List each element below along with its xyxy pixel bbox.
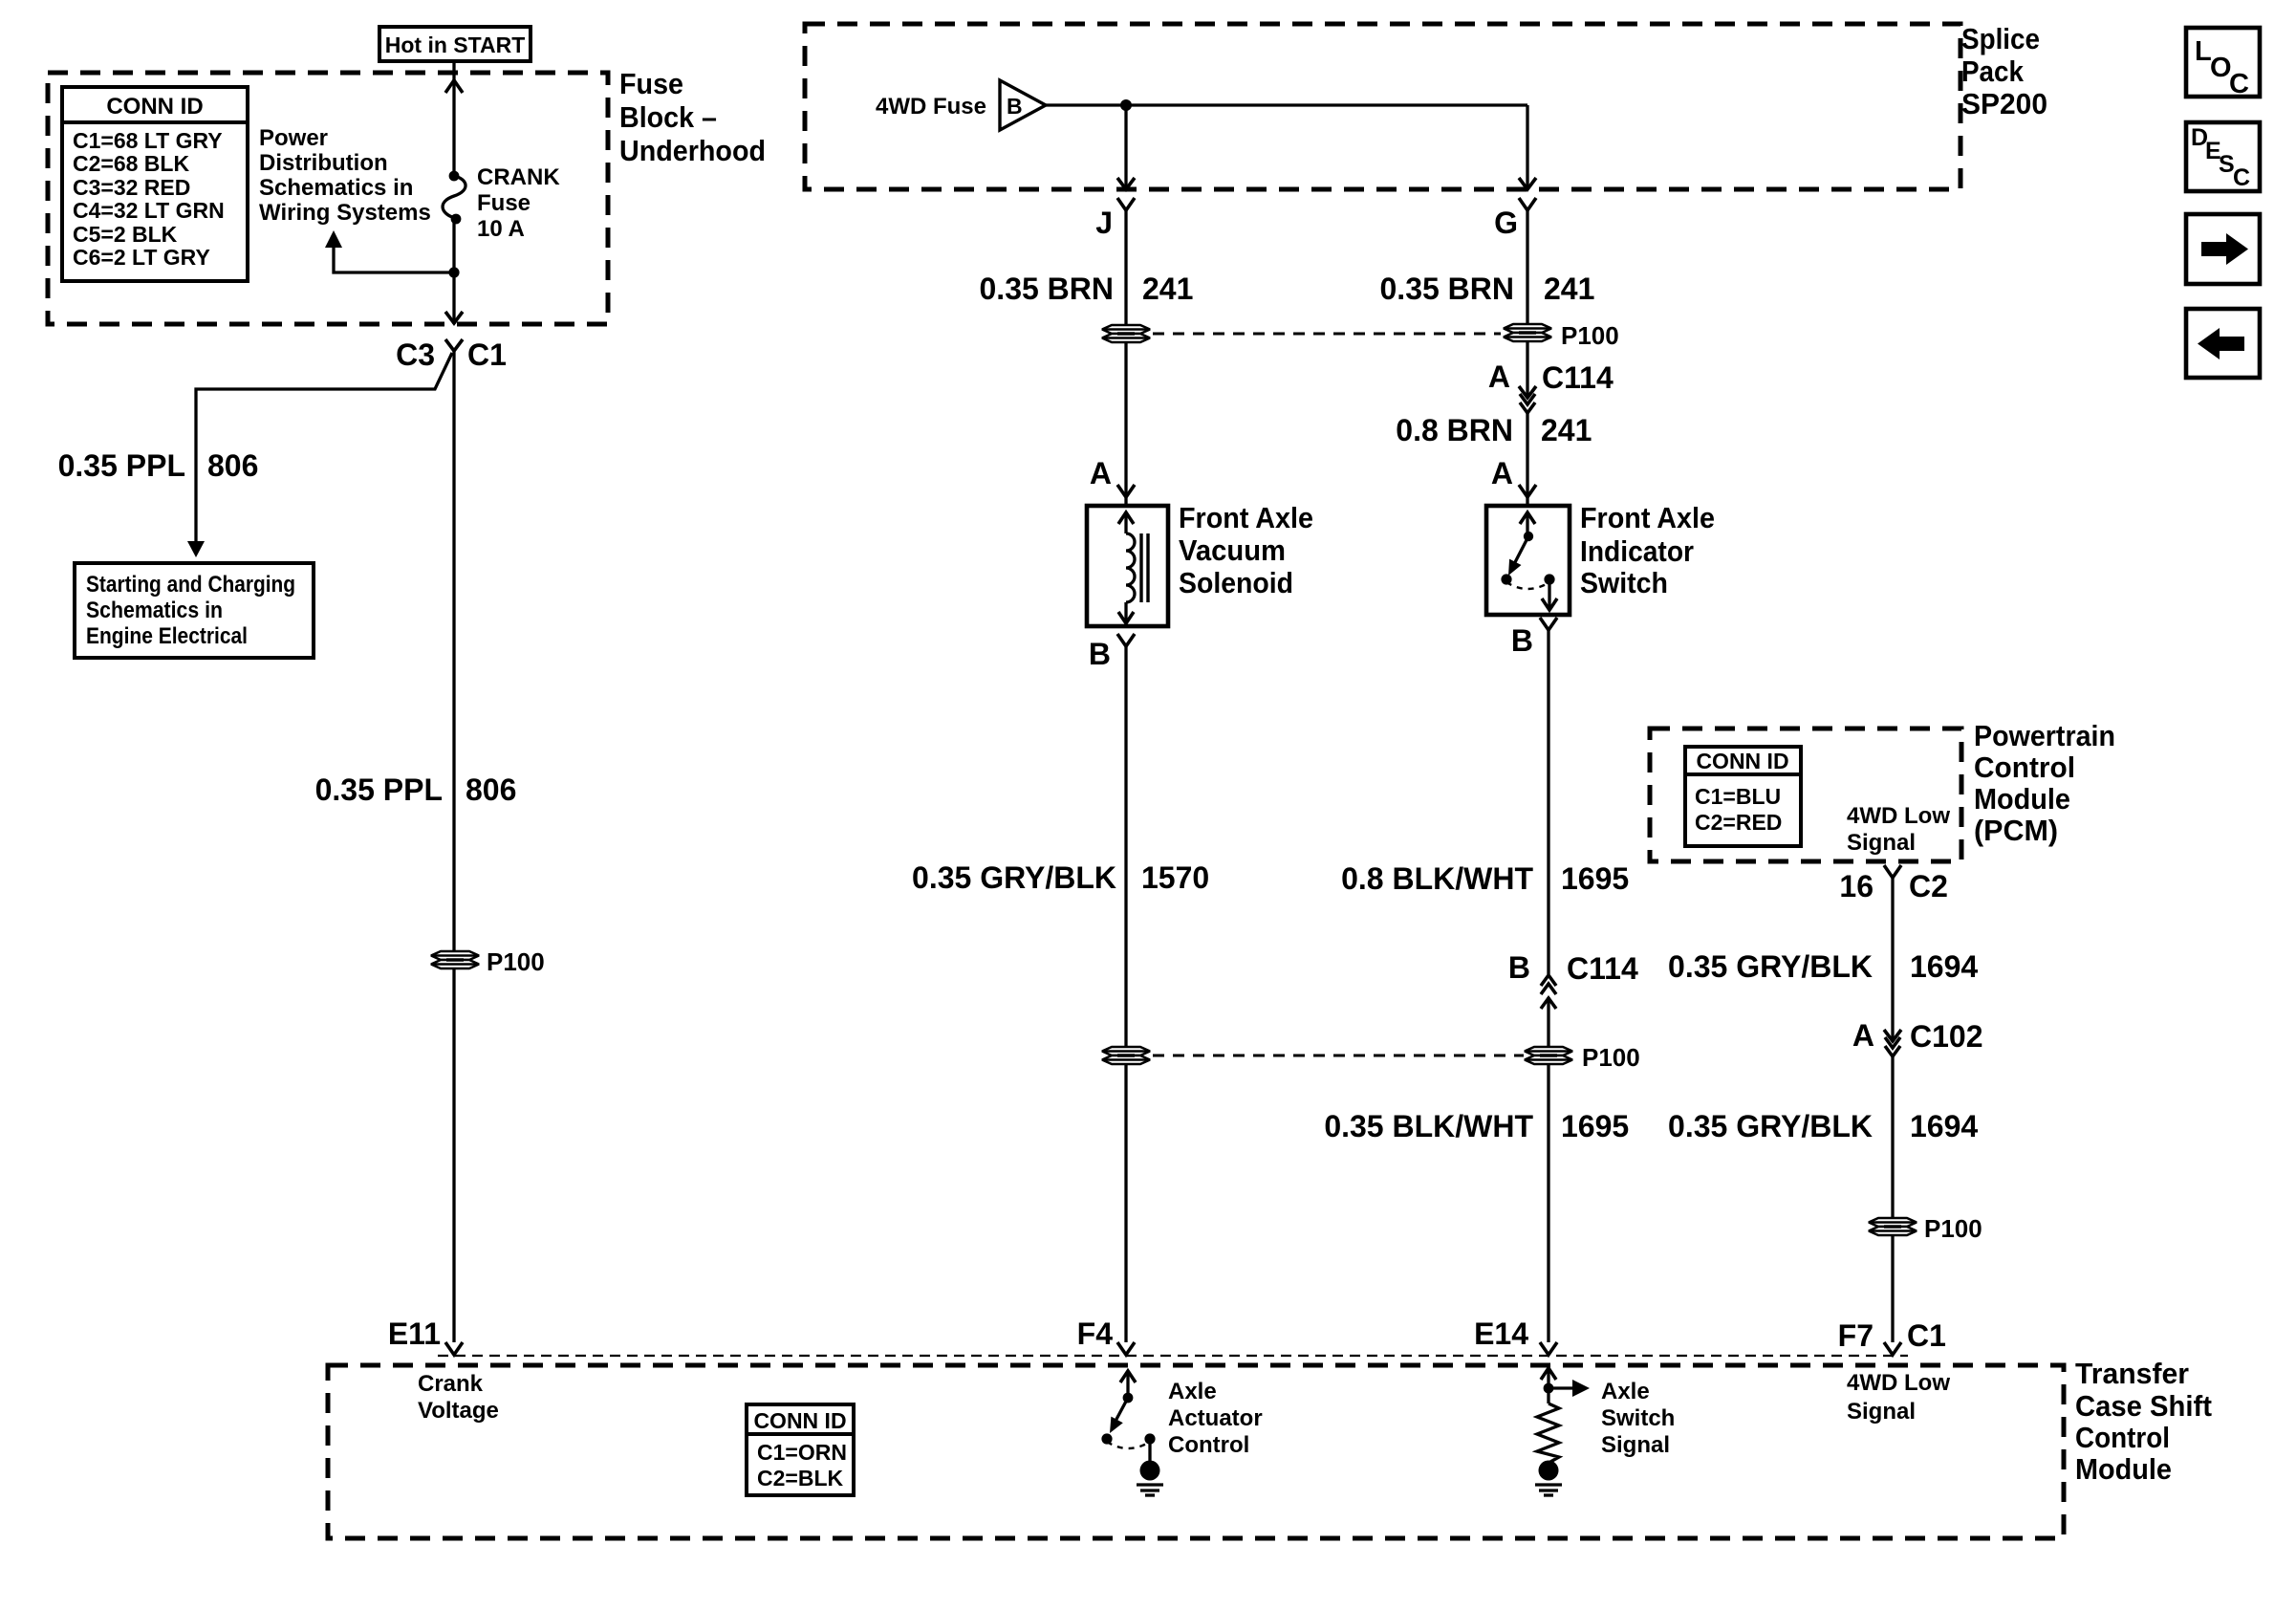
svg-text:0.35 PPL: 0.35 PPL: [58, 448, 185, 483]
wire label 0.35 GRY/BLK 1694 (upper): [1668, 949, 1978, 984]
svg-text:A: A: [1491, 456, 1513, 490]
svg-text:C: C: [2233, 164, 2250, 191]
svg-text:806: 806: [207, 448, 258, 483]
svg-text:CONN ID: CONN ID: [1696, 749, 1788, 773]
svg-text:0.35 GRY/BLK: 0.35 GRY/BLK: [1668, 949, 1873, 984]
legend icon: forward arrow: [2186, 214, 2260, 284]
svg-text:C2=BLK: C2=BLK: [757, 1466, 843, 1490]
svg-text:E11: E11: [388, 1316, 441, 1351]
inline connector P100 (mid, right): [1525, 1043, 1640, 1072]
svg-text:4WD Low: 4WD Low: [1847, 803, 1950, 829]
svg-text:16: 16: [1839, 869, 1874, 903]
inline connector P100 (PCM branch): [1869, 1214, 1982, 1243]
connector break B / C114 with arrow: [1508, 950, 1638, 1009]
terminal E14: [1474, 1316, 1557, 1355]
wire: branch to Starting and Charging note: [187, 353, 452, 557]
svg-text:Fuse: Fuse: [619, 67, 683, 100]
svg-text:Schematics in: Schematics in: [259, 175, 413, 201]
power label box "Hot in START": [379, 27, 531, 61]
wire: splice pack bus: [1046, 99, 1527, 111]
wire: J branch upper: [1124, 210, 1127, 325]
svg-text:Pack: Pack: [1961, 54, 2025, 88]
svg-text:A: A: [1488, 359, 1510, 394]
svg-text:Switch: Switch: [1580, 566, 1668, 599]
svg-text:Block –: Block –: [619, 100, 717, 134]
svg-text:241: 241: [1544, 272, 1594, 306]
svg-text:B: B: [1508, 950, 1530, 985]
svg-text:Signal: Signal: [1847, 1399, 1916, 1425]
note box: Starting and Charging Schematics in Engine Electrical: [75, 563, 314, 658]
legend icon: back arrow: [2186, 309, 2260, 378]
connector break 16 / C2: [1839, 865, 1948, 903]
svg-text:C2=68 BLK: C2=68 BLK: [73, 151, 189, 176]
pin label A (solenoid): [1090, 456, 1112, 490]
label: Crank Voltage: [418, 1371, 499, 1424]
pin label A (indicator switch): [1491, 456, 1513, 490]
connector break C3 / C1: [396, 337, 507, 372]
svg-text:0.8 BRN: 0.8 BRN: [1396, 413, 1513, 447]
svg-text:SP200: SP200: [1961, 87, 2047, 120]
module box: Powertrain Control Module (dashed): [1650, 729, 1961, 861]
module box: Transfer Case Shift Control Module (dashed): [328, 1365, 2064, 1538]
note: Power Distribution Schematics in Wiring Systems: [259, 125, 431, 226]
svg-text:Hot in START: Hot in START: [385, 33, 526, 57]
svg-text:241: 241: [1142, 272, 1193, 306]
svg-text:C114: C114: [1542, 360, 1614, 395]
svg-text:Vacuum: Vacuum: [1179, 533, 1286, 567]
svg-text:C1=68 LT GRY: C1=68 LT GRY: [73, 128, 223, 153]
svg-text:Actuator: Actuator: [1168, 1405, 1263, 1431]
terminal F7 / C1: [1838, 1318, 1946, 1355]
connector ID table (transfer case module): [747, 1404, 854, 1495]
wire label 0.35 BLK/WHT 1695: [1324, 1109, 1629, 1143]
wire: G branch upper: [1526, 210, 1528, 324]
component box: Front Axle Indicator Switch: [1486, 506, 1570, 615]
svg-text:0.35 BRN: 0.35 BRN: [1380, 272, 1515, 306]
label: Fuse Block - Underhood: [619, 67, 766, 167]
svg-text:Axle: Axle: [1601, 1379, 1650, 1404]
svg-text:G: G: [1494, 206, 1518, 240]
inline connector P100 (G branch, upper): [1504, 321, 1619, 350]
pin label B (solenoid): [1089, 634, 1135, 671]
svg-text:1695: 1695: [1561, 1109, 1629, 1143]
svg-text:Front Axle: Front Axle: [1179, 501, 1313, 534]
wire: switch to E14: [1547, 630, 1549, 1342]
svg-text:C4=32 LT GRN: C4=32 LT GRN: [73, 198, 225, 223]
svg-text:Signal: Signal: [1847, 830, 1916, 856]
svg-text:B: B: [1511, 623, 1533, 658]
wire label 0.35 PPL 806 (upper): [58, 448, 259, 483]
module box: Fuse Block - Underhood (dashed): [48, 73, 608, 324]
svg-text:P100: P100: [1924, 1214, 1982, 1243]
wire: fuse to fuse-block edge, junction dot: [445, 223, 463, 324]
label: Splice Pack SP200: [1961, 22, 2047, 120]
svg-text:241: 241: [1541, 413, 1592, 447]
svg-text:C102: C102: [1910, 1019, 1983, 1054]
svg-text:(PCM): (PCM): [1974, 814, 2058, 847]
svg-text:1570: 1570: [1141, 860, 1209, 895]
svg-text:Schematics in: Schematics in: [86, 598, 223, 623]
svg-text:C5=2 BLK: C5=2 BLK: [73, 222, 178, 247]
inline connector P100 (mid, left): [1102, 1047, 1150, 1064]
connector break J: [1095, 198, 1135, 240]
svg-text:0.8 BLK/WHT: 0.8 BLK/WHT: [1341, 861, 1533, 896]
svg-text:C114: C114: [1567, 951, 1638, 986]
wire: C102 to P100: [1891, 1056, 1894, 1218]
switch symbol (indicator switch): [1501, 512, 1557, 610]
wire label 0.35 BRN 241 (G branch): [1380, 272, 1595, 306]
svg-text:E14: E14: [1474, 1316, 1528, 1351]
svg-text:Distribution: Distribution: [259, 150, 388, 176]
svg-text:Indicator: Indicator: [1580, 534, 1694, 568]
svg-text:Splice: Splice: [1961, 22, 2040, 55]
component box: Front Axle Vacuum Solenoid: [1087, 506, 1168, 626]
svg-text:C1=BLU: C1=BLU: [1695, 784, 1781, 809]
connector break A / C114 with arrow: [1488, 341, 1614, 413]
svg-text:J: J: [1095, 206, 1113, 240]
svg-text:C3: C3: [396, 337, 435, 372]
svg-text:Control: Control: [1168, 1432, 1249, 1458]
wire label 0.35 GRY/BLK 1694 (lower): [1668, 1109, 1978, 1143]
svg-text:Power: Power: [259, 125, 328, 151]
connector chevron at solenoid pin A: [1117, 485, 1135, 497]
ground (axle actuator): [1137, 1461, 1163, 1496]
svg-text:P100: P100: [1561, 321, 1619, 350]
terminal F4: [1077, 1316, 1135, 1355]
wire: splice to edge (J leg): [1117, 105, 1135, 189]
label: Front Axle Vacuum Solenoid: [1179, 501, 1313, 599]
svg-text:Control: Control: [2075, 1421, 2170, 1454]
svg-text:4WD Fuse: 4WD Fuse: [876, 94, 986, 120]
svg-text:Switch: Switch: [1601, 1405, 1675, 1431]
svg-text:Starting and Charging: Starting and Charging: [86, 572, 295, 598]
svg-text:Engine Electrical: Engine Electrical: [86, 623, 248, 649]
svg-text:Voltage: Voltage: [418, 1398, 499, 1424]
label: 4WD Low Signal (transfer case pin): [1847, 1370, 1950, 1425]
connector face line (thin dashed): [438, 1355, 1908, 1357]
svg-text:Module: Module: [1974, 782, 2070, 816]
svg-text:Powertrain: Powertrain: [1974, 719, 2115, 752]
svg-text:F4: F4: [1077, 1316, 1114, 1351]
label: Axle Actuator Control: [1168, 1379, 1263, 1458]
svg-text:Signal: Signal: [1601, 1432, 1670, 1458]
wire: splice to edge (G leg): [1519, 105, 1536, 189]
svg-text:0.35 BRN: 0.35 BRN: [980, 272, 1115, 306]
label: Transfer Case Shift Control Module: [2075, 1357, 2212, 1486]
connector break A / C102 with arrow: [1852, 1018, 1983, 1056]
label: Front Axle Indicator Switch: [1580, 501, 1715, 599]
svg-text:C2=RED: C2=RED: [1695, 810, 1782, 835]
svg-text:Module: Module: [2075, 1452, 2172, 1486]
label: Powertrain Control Module (PCM): [1974, 719, 2115, 847]
svg-text:10 A: 10 A: [477, 216, 525, 242]
axle switch signal resistor (E14): [1537, 1368, 1590, 1462]
svg-text:C1=ORN: C1=ORN: [757, 1440, 847, 1465]
inline connector P100 (J branch, upper): [1102, 325, 1150, 342]
svg-text:CONN ID: CONN ID: [106, 94, 203, 120]
wire label 0.8 BLK/WHT 1695: [1341, 861, 1629, 896]
wire: PCM to C102: [1891, 878, 1894, 1039]
svg-text:C3=32 RED: C3=32 RED: [73, 175, 190, 200]
legend icon: LOC: [2186, 28, 2260, 99]
svg-text:C1: C1: [467, 337, 507, 372]
wire: P100 to F7: [1891, 1235, 1894, 1342]
svg-text:4WD Low: 4WD Low: [1847, 1370, 1950, 1396]
legend icon: DESC: [2186, 122, 2260, 191]
svg-text:CONN ID: CONN ID: [753, 1408, 846, 1433]
wire: Hot in START down to CRANK fuse: [445, 61, 463, 174]
reference arrow to Power Distribution note: [325, 230, 454, 272]
dashed pass-through link (mid P100 pair): [1153, 1055, 1524, 1057]
wire: solenoid to F4: [1124, 646, 1127, 1342]
svg-text:Front Axle: Front Axle: [1580, 501, 1715, 534]
svg-text:1695: 1695: [1561, 861, 1629, 896]
svg-text:P100: P100: [487, 947, 545, 976]
wire label 0.35 GRY/BLK 1570: [912, 860, 1209, 895]
svg-text:Crank: Crank: [418, 1371, 484, 1397]
label: 4WD Low Signal (PCM pin): [1847, 803, 1950, 856]
label: 4WD Fuse: [876, 94, 986, 120]
svg-text:B: B: [1007, 94, 1023, 119]
svg-text:CRANK: CRANK: [477, 164, 560, 190]
svg-text:0.35 GRY/BLK: 0.35 GRY/BLK: [912, 860, 1116, 895]
svg-text:806: 806: [466, 772, 516, 807]
svg-text:Axle: Axle: [1168, 1379, 1217, 1404]
svg-text:C6=2 LT GRY: C6=2 LT GRY: [73, 245, 210, 270]
connector ID table (PCM): [1685, 747, 1801, 846]
svg-text:0.35 PPL: 0.35 PPL: [315, 772, 443, 807]
module box: Splice Pack SP200 (dashed): [805, 24, 1960, 189]
terminal E11: [388, 1316, 463, 1355]
svg-text:C2: C2: [1909, 869, 1948, 903]
svg-text:P100: P100: [1582, 1043, 1640, 1072]
wire: J branch to solenoid: [1124, 342, 1127, 505]
svg-text:F7: F7: [1838, 1318, 1874, 1353]
svg-text:B: B: [1089, 637, 1111, 671]
svg-text:C1: C1: [1907, 1318, 1946, 1353]
svg-text:Fuse: Fuse: [477, 190, 531, 216]
svg-text:C: C: [2229, 69, 2249, 99]
wire label 0.35 BRN 241 (J branch): [980, 272, 1194, 306]
svg-text:0.35 BLK/WHT: 0.35 BLK/WHT: [1324, 1109, 1533, 1143]
connector chevron at switch pin A: [1519, 485, 1536, 497]
wire label 0.35 PPL 806 (lower): [315, 772, 517, 807]
fuse terminal triangle B: [1000, 80, 1046, 130]
svg-text:1694: 1694: [1910, 949, 1978, 984]
fuse CRANK 10 A: [443, 171, 466, 225]
solenoid coil symbol: [1118, 512, 1148, 623]
dashed pass-through link (upper P100 pair): [1153, 333, 1501, 336]
svg-text:Solenoid: Solenoid: [1179, 566, 1293, 599]
wire: crank voltage vertical run: [452, 351, 455, 1342]
svg-text:1694: 1694: [1910, 1109, 1978, 1143]
svg-text:Underhood: Underhood: [619, 134, 766, 167]
svg-text:Case Shift: Case Shift: [2075, 1389, 2212, 1423]
label: Axle Switch Signal: [1601, 1379, 1675, 1458]
svg-text:0.35 GRY/BLK: 0.35 GRY/BLK: [1668, 1109, 1873, 1143]
svg-text:A: A: [1090, 456, 1112, 490]
svg-text:A: A: [1852, 1018, 1874, 1053]
svg-text:Control: Control: [1974, 751, 2075, 784]
ground (axle switch): [1535, 1461, 1562, 1496]
svg-text:Transfer: Transfer: [2075, 1357, 2189, 1390]
wire label 0.8 BRN 241: [1396, 413, 1592, 505]
axle actuator control switch (F4): [1101, 1371, 1155, 1461]
inline connector P100 (crank wire): [431, 947, 545, 976]
connector ID table (fuse block): [62, 87, 248, 281]
pin label B (indicator switch): [1511, 618, 1557, 658]
label: CRANK Fuse 10 A: [477, 164, 560, 242]
svg-text:Wiring Systems: Wiring Systems: [259, 200, 431, 226]
connector break G: [1494, 198, 1536, 240]
